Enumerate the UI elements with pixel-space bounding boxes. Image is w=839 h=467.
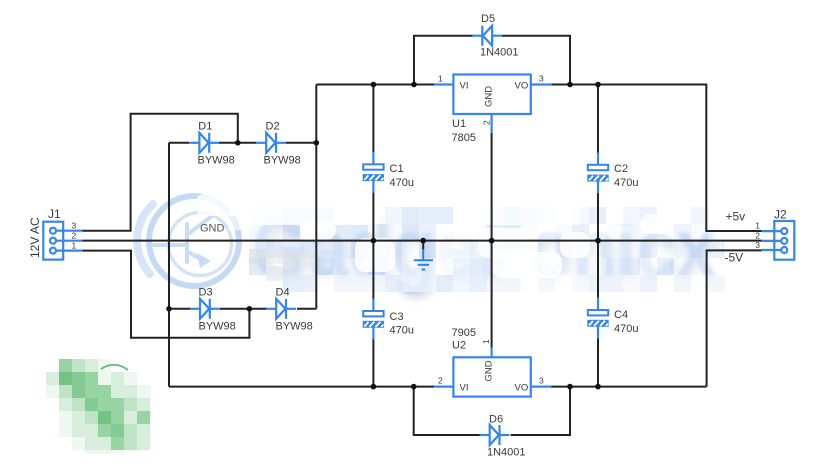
svg-text:470u: 470u: [614, 177, 638, 189]
svg-text:1N4001: 1N4001: [487, 447, 526, 459]
svg-text:GND: GND: [484, 360, 495, 381]
svg-text:C2: C2: [614, 163, 628, 175]
svg-text:VO: VO: [515, 382, 529, 393]
svg-text:3: 3: [539, 376, 544, 386]
svg-text:2: 2: [72, 231, 77, 241]
svg-text:U2: U2: [452, 340, 466, 352]
svg-text:D4: D4: [276, 287, 290, 299]
svg-text:VI: VI: [460, 383, 469, 394]
svg-text:J2: J2: [774, 208, 787, 222]
svg-text:VO: VO: [515, 80, 529, 91]
svg-text:1: 1: [755, 221, 760, 231]
svg-text:3: 3: [72, 221, 77, 231]
svg-text:C4: C4: [614, 309, 628, 321]
svg-text:C3: C3: [390, 311, 404, 323]
svg-text:1N4001: 1N4001: [480, 47, 519, 59]
svg-text:D1: D1: [198, 121, 212, 133]
svg-text:2: 2: [438, 376, 443, 386]
svg-text:470u: 470u: [614, 323, 638, 335]
svg-text:D3: D3: [199, 287, 213, 299]
svg-text:BYW98: BYW98: [276, 321, 313, 333]
svg-text:470u: 470u: [390, 177, 414, 189]
svg-text:-5V: -5V: [725, 251, 744, 265]
svg-text:7905: 7905: [452, 327, 476, 339]
svg-text:U1: U1: [452, 118, 466, 130]
svg-text:1: 1: [481, 339, 491, 344]
svg-text:BYW98: BYW98: [199, 321, 236, 333]
svg-text:D5: D5: [481, 13, 495, 25]
svg-text:470u: 470u: [390, 325, 414, 337]
svg-text:2: 2: [755, 230, 760, 240]
svg-text:J1: J1: [48, 207, 61, 221]
svg-text:BYW98: BYW98: [198, 155, 235, 167]
svg-text:12V AC: 12V AC: [28, 217, 42, 258]
svg-text:1: 1: [72, 240, 77, 250]
svg-text:+5v: +5v: [726, 210, 746, 224]
svg-text:3: 3: [755, 240, 760, 250]
svg-text:D2: D2: [266, 121, 280, 133]
svg-text:BYW98: BYW98: [264, 155, 301, 167]
svg-text:2: 2: [482, 120, 492, 125]
svg-text:GND: GND: [484, 86, 495, 107]
svg-text:1: 1: [438, 74, 443, 84]
svg-text:7805: 7805: [452, 132, 476, 144]
svg-text:GND: GND: [200, 223, 225, 235]
svg-text:VI: VI: [460, 81, 469, 92]
svg-text:C1: C1: [390, 163, 404, 175]
svg-text:D6: D6: [489, 413, 503, 425]
svg-text:3: 3: [539, 74, 544, 84]
